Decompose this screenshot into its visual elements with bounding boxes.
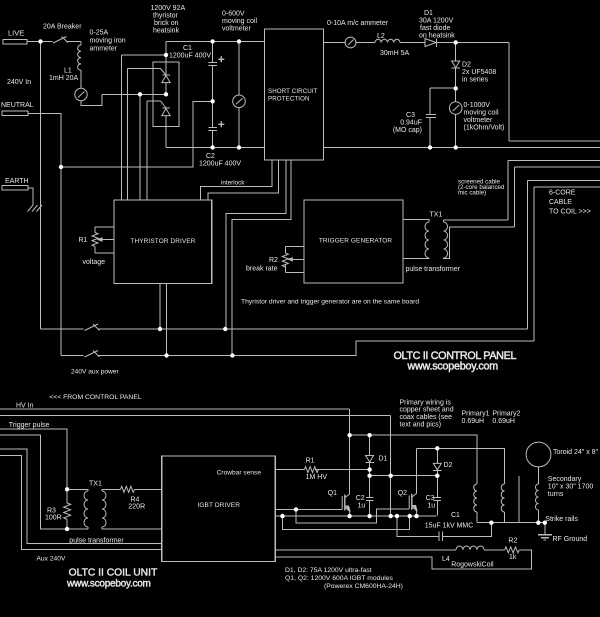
svg-text:Strike rails: Strike rails (545, 516, 578, 523)
svg-text:Thyristor driver and trigger g: Thyristor driver and trigger generator a… (241, 299, 419, 306)
svg-text:240V aux power: 240V aux power (71, 369, 119, 376)
svg-text:break rate: break rate (246, 266, 278, 273)
svg-text:OLTC II COIL UNIT: OLTC II COIL UNIT (69, 568, 158, 579)
svg-text:R1: R1 (306, 458, 315, 465)
svg-text:C1: C1 (183, 45, 192, 52)
svg-text:15uF 1kV MMC: 15uF 1kV MMC (425, 523, 474, 530)
svg-text:TO COIL >>>: TO COIL >>> (549, 209, 591, 216)
svg-text:thyristor: thyristor (153, 13, 179, 20)
svg-text:C3: C3 (406, 112, 415, 119)
svg-text:C2: C2 (206, 153, 215, 160)
svg-text:Crowbar sense: Crowbar sense (217, 470, 262, 477)
svg-text:Toroid 24" x 8": Toroid 24" x 8" (553, 449, 599, 456)
svg-text:NEUTRAL: NEUTRAL (1, 102, 34, 109)
svg-text:THYRISTOR DRIVER: THYRISTOR DRIVER (130, 238, 195, 245)
svg-text:1u: 1u (358, 503, 366, 510)
svg-text:R1: R1 (79, 237, 88, 244)
svg-text:text and pics): text and pics) (400, 421, 442, 428)
svg-text:(MO cap): (MO cap) (393, 127, 422, 134)
svg-text:0-600V: 0-600V (222, 11, 245, 18)
svg-text:pulse transformer: pulse transformer (69, 538, 124, 545)
svg-text:20A Breaker: 20A Breaker (43, 24, 82, 31)
svg-text:interlock: interlock (221, 180, 245, 187)
svg-text:TX1: TX1 (89, 480, 102, 487)
svg-text:D2: D2 (444, 462, 453, 469)
svg-text:Primary wiring is: Primary wiring is (400, 399, 452, 406)
svg-text:C3: C3 (426, 495, 435, 502)
svg-text:LIVE: LIVE (8, 29, 24, 38)
svg-text:C2: C2 (356, 495, 365, 502)
svg-text:L1: L1 (64, 68, 72, 75)
svg-text:0-25A: 0-25A (90, 30, 109, 37)
svg-text:brick on: brick on (154, 20, 179, 27)
svg-text:in series: in series (462, 77, 489, 84)
svg-text:30mH 5A: 30mH 5A (380, 50, 410, 57)
svg-text:RF Ground: RF Ground (553, 536, 588, 543)
svg-text:220R: 220R (128, 504, 145, 511)
svg-text:on heatsink: on heatsink (419, 33, 455, 40)
svg-text:moving coil: moving coil (222, 18, 257, 25)
svg-text:R4: R4 (131, 497, 140, 504)
svg-text:R2: R2 (508, 538, 517, 545)
svg-text:pulse transformer: pulse transformer (406, 266, 461, 273)
svg-text:0.69uH: 0.69uH (492, 418, 515, 425)
svg-text:EARTH: EARTH (5, 178, 29, 185)
svg-text:Q1, Q2: 1200V 600A IGBT modul: Q1, Q2: 1200V 600A IGBT modules (285, 575, 394, 582)
svg-text:30A 1200V: 30A 1200V (419, 18, 454, 25)
svg-text:voltmeter: voltmeter (464, 117, 493, 124)
svg-text:L4: L4 (442, 556, 450, 563)
svg-text:Primary2: Primary2 (492, 411, 520, 418)
svg-text:heatsink: heatsink (153, 28, 180, 35)
svg-text:PROTECTION: PROTECTION (268, 96, 310, 103)
svg-text:100R: 100R (45, 515, 62, 522)
svg-text:D2: D2 (462, 62, 471, 69)
svg-text:Aux 240V: Aux 240V (36, 555, 66, 562)
svg-text:(1kOhm/Volt): (1kOhm/Volt) (464, 125, 505, 132)
svg-text:D1: D1 (379, 456, 388, 463)
svg-text:240V In: 240V In (7, 79, 31, 86)
svg-text:coax cables (see: coax cables (see (400, 414, 453, 421)
svg-text:Primary1: Primary1 (462, 411, 490, 418)
svg-text:0-1000V: 0-1000V (464, 102, 491, 109)
svg-text:C1: C1 (451, 512, 460, 519)
svg-text:1200uF 400V: 1200uF 400V (169, 53, 211, 60)
svg-text:0.94uF: 0.94uF (400, 120, 422, 127)
svg-text:R2: R2 (269, 257, 278, 264)
svg-text:moving coil: moving coil (464, 110, 499, 117)
svg-text:6-CORE: 6-CORE (549, 190, 576, 197)
svg-text:RogowskiCoil: RogowskiCoil (451, 562, 494, 569)
svg-text:IGBT DRIVER: IGBT DRIVER (198, 502, 241, 509)
svg-text:<<< FROM CONTROL PANEL: <<< FROM CONTROL PANEL (49, 394, 142, 401)
svg-text:CABLE: CABLE (549, 199, 572, 206)
svg-text:TX1: TX1 (430, 212, 443, 219)
svg-text:(Powerex CM600HA-24H): (Powerex CM600HA-24H) (324, 583, 403, 590)
svg-text:turns: turns (548, 491, 564, 498)
svg-text:fast diode: fast diode (420, 25, 450, 32)
svg-text:Trigger pulse: Trigger pulse (9, 422, 50, 429)
svg-text:1mH 20A: 1mH 20A (49, 75, 79, 82)
svg-text:mic cable): mic cable) (458, 189, 486, 196)
svg-text:moving iron: moving iron (90, 38, 126, 45)
svg-text:ammeter: ammeter (90, 46, 118, 53)
svg-text:2x UF5408: 2x UF5408 (462, 69, 496, 76)
svg-text:R3: R3 (47, 508, 56, 515)
svg-text:1M HV: 1M HV (306, 474, 328, 481)
svg-text:1200uF 400V: 1200uF 400V (199, 161, 241, 168)
svg-text:0.69uH: 0.69uH (462, 418, 485, 425)
svg-text:HV In: HV In (16, 403, 34, 410)
svg-text:0-10A m/c ammeter: 0-10A m/c ammeter (327, 20, 389, 27)
svg-text:copper sheet and: copper sheet and (400, 407, 454, 414)
svg-text:1k: 1k (509, 554, 517, 561)
svg-text:Secondary: Secondary (548, 476, 582, 483)
svg-text:www.scopeboy.com: www.scopeboy.com (407, 361, 499, 373)
svg-text:SHORT CIRCUIT: SHORT CIRCUIT (268, 88, 318, 95)
svg-text:1200V 92A: 1200V 92A (151, 5, 186, 12)
svg-text:Q1: Q1 (328, 490, 337, 497)
svg-text:L2: L2 (377, 33, 385, 40)
svg-text:10" x 30" 1700: 10" x 30" 1700 (548, 484, 594, 491)
svg-text:voltage: voltage (83, 259, 106, 266)
svg-text:1u: 1u (427, 503, 435, 510)
svg-text:www.scopeboy.com: www.scopeboy.com (66, 579, 151, 590)
svg-text:Q2: Q2 (398, 490, 407, 497)
svg-text:D1: D1 (424, 10, 433, 17)
svg-text:voltmeter: voltmeter (222, 26, 251, 33)
svg-text:D1, D2: 75A 1200V ultra-fast: D1, D2: 75A 1200V ultra-fast (285, 567, 372, 574)
svg-text:TRIGGER GENERATOR: TRIGGER GENERATOR (319, 238, 393, 245)
